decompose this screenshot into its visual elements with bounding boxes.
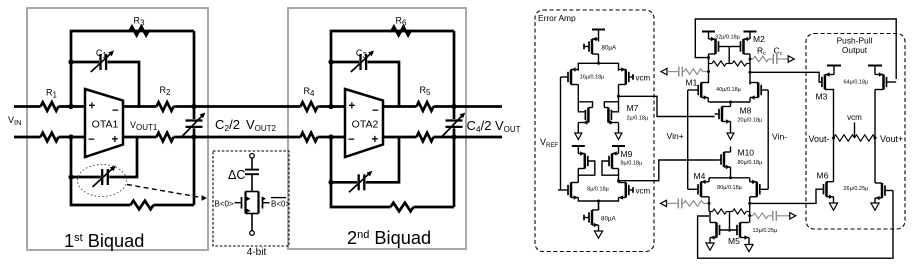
node lower right gray junction [748, 214, 751, 217]
node Vout- junction [832, 137, 835, 140]
transistor PMOS diode right M9 [602, 146, 625, 183]
resistor R1 [38, 105, 41, 108]
svg-text:Vout-: Vout- [809, 134, 830, 144]
svg-text:OTA2: OTA2 [352, 119, 379, 131]
resistor string lower right [730, 211, 733, 213]
svg-text:vcm: vcm [636, 74, 651, 83]
wire integrator cap branch [331, 61, 359, 64]
transistor M1 pair right [750, 83, 768, 103]
output resistor lower [154, 136, 157, 139]
Push-Pull Output dashed box [806, 34, 905, 230]
node input- junction [328, 134, 333, 139]
capacitor tuning (variable, lower) [93, 166, 116, 188]
transistor M10 80u/0.18u [720, 147, 731, 178]
svg-text:Output: Output [842, 45, 868, 55]
wire class-AB bottom route (to right NMOS gate) [698, 191, 893, 259]
wire error amp upper output to M8 gate [619, 96, 715, 116]
wire bottom feedback loop [331, 182, 388, 207]
svg-text:M5: M5 [728, 236, 740, 246]
wire terminal to cap [251, 158, 253, 169]
node input+ junction [328, 104, 333, 109]
transistor M4 pair right [750, 178, 769, 223]
wire output line bottom [383, 136, 414, 139]
supply bar M2 right [744, 32, 757, 40]
svg-text:+: + [349, 101, 356, 113]
node lower left gray junction [708, 202, 711, 205]
gray tap upper-left (to error amp) [661, 67, 709, 77]
transistor M2 left 32u/0.18u [709, 37, 730, 54]
svg-text:32µ/0.18µ: 32µ/0.18µ [715, 35, 741, 41]
node Vout+ junction [874, 137, 877, 140]
wire class-AB top route (left node to right PMOS gate) [695, 19, 896, 79]
wire lower rail [709, 177, 750, 179]
wire integrator cap branch [71, 61, 99, 64]
output resistor lower [414, 136, 417, 139]
svg-text:+: + [372, 134, 379, 146]
bottom feedback resistor [388, 206, 391, 209]
flow arrow M8 to M10 [727, 122, 734, 140]
wire M10 source to lower rail [729, 176, 732, 179]
wire top feedback loop [331, 31, 454, 107]
wire output line top [383, 105, 414, 108]
4-bit tuning dashed box [213, 151, 289, 246]
wire string mid to M5 gates [729, 212, 731, 231]
transistor M4 80u/0.18u [688, 178, 709, 212]
capacitor C1 (variable) [91, 51, 114, 73]
wire inter-stage line bottom [194, 136, 298, 139]
resistor R5 [414, 105, 417, 108]
svg-text:M1: M1 [686, 78, 698, 88]
wire vcm stub [854, 123, 856, 139]
svg-text:M4: M4 [694, 171, 706, 181]
wire inter-stage line top [194, 105, 298, 108]
svg-text:64µ/0.18µ: 64µ/0.18µ [844, 80, 870, 86]
transistor PMOS diode left [572, 146, 595, 183]
svg-text:8µ/0.18µ: 8µ/0.18µ [587, 187, 609, 193]
node input+ junction [68, 104, 73, 109]
svg-text:Vout+: Vout+ [880, 134, 903, 144]
transistor push-pull PMOS right [875, 72, 896, 138]
svg-text:40µ/0.18µ: 40µ/0.18µ [716, 87, 742, 93]
svg-text:vcm: vcm [636, 187, 651, 196]
wire cap to switch [251, 174, 253, 191]
svg-text:8µ/0.18µ: 8µ/0.18µ [621, 161, 643, 167]
transistor diff pair upper-right (vcm) [619, 67, 634, 96]
svg-text:13µ/0.25µ: 13µ/0.25µ [753, 228, 779, 234]
resistor string lower left [709, 211, 713, 213]
svg-text:M2: M2 [753, 34, 765, 44]
wire output line top [123, 105, 154, 108]
wire right node column upper [749, 54, 751, 84]
transistor diff pair upper-left 16u/0.18u [561, 67, 579, 97]
svg-text:Error Amp: Error Amp [538, 13, 576, 23]
node output cap bottom junction [451, 134, 456, 139]
transistor M1 [688, 83, 709, 103]
svg-text:−: − [88, 134, 95, 146]
svg-text:2µ/0.18µ: 2µ/0.18µ [627, 116, 649, 122]
wire M6 gate line [750, 189, 821, 203]
wire output stub bottom [454, 136, 502, 139]
transmission gate switch [235, 192, 270, 214]
svg-text:M3: M3 [816, 92, 828, 102]
transistor diff pair lower-left (VREF) [558, 183, 578, 200]
svg-text:80µ/0.18µ: 80µ/0.18µ [717, 185, 743, 191]
resistor string upper left [709, 63, 713, 65]
wire input line top [14, 105, 38, 108]
svg-text:−: − [112, 105, 119, 117]
svg-text:4-bit: 4-bit [247, 247, 267, 258]
current source 80uA NMOS (bottom) [584, 201, 603, 238]
transistor M5 left [706, 212, 720, 251]
supply bar M3 [827, 66, 841, 75]
svg-text:M8: M8 [740, 106, 752, 116]
svg-text:80µA: 80µA [602, 45, 617, 52]
node Vin- net [767, 90, 769, 189]
op-amp OTA2 [345, 89, 383, 157]
node Vin+ net [687, 90, 689, 189]
svg-text:80µA: 80µA [601, 216, 616, 223]
transistor diode NMOS right M7 [604, 96, 618, 125]
tuning highlight dotted ellipse [78, 165, 127, 197]
transistor diode NMOS left [578, 97, 592, 125]
wire M2 gates to resistor midpoint [728, 47, 730, 64]
svg-text:−: − [372, 105, 379, 117]
wire VREF net [560, 77, 562, 190]
wire error amp lower output to M10 gate [619, 160, 720, 181]
resistor R3 [127, 30, 130, 33]
gray tap lower-left (to error amp) [661, 198, 710, 208]
wire output line bottom [123, 136, 154, 139]
wire M3 gate line [750, 72, 822, 82]
1st Biquad frame box [27, 8, 208, 250]
wire lower diff sources rail [578, 198, 618, 202]
svg-text:M7: M7 [627, 103, 639, 113]
Error Amp dashed box [535, 10, 654, 252]
transistor diff pair lower-right (vcm) [619, 183, 634, 200]
capacitor C3 (variable) [351, 51, 374, 73]
svg-text:16µ/0.18µ: 16µ/0.18µ [580, 75, 606, 81]
resistor R4 [298, 105, 301, 108]
node output cap top junction [451, 104, 456, 109]
node output cap bottom junction [191, 134, 196, 139]
capacitor C2/2 (variable, output) [181, 113, 206, 139]
bottom feedback resistor [128, 204, 131, 207]
terminal bottom [250, 231, 255, 236]
wire lower cap feedback [330, 137, 333, 182]
transistor M8 20u/0.18u [715, 102, 731, 124]
svg-text:M6: M6 [817, 171, 829, 181]
wire left node column upper [708, 54, 710, 83]
wire switch to terminal [251, 214, 253, 231]
2nd Biquad frame box [288, 8, 466, 249]
svg-text:80µ/0.18µ: 80µ/0.18µ [738, 160, 764, 166]
capacitor tuning (variable, lower) [349, 171, 372, 193]
wire output stub top [454, 105, 502, 108]
resistor vcm right [855, 135, 876, 141]
svg-text:+: + [89, 101, 96, 113]
svg-text:Vin-: Vin- [772, 132, 787, 142]
svg-text:B<0>: B<0> [271, 200, 290, 209]
input resistor lower (1st biquad) [38, 136, 41, 139]
wire lower cap feedback [70, 137, 73, 177]
capacitor deltaC [245, 169, 259, 171]
wire M1 sources rail [709, 101, 751, 103]
gray tap lower-right [749, 211, 796, 221]
resistor R2 [154, 105, 157, 108]
terminal top [250, 154, 255, 159]
gray compensation Rc Cc (upper right) [750, 54, 794, 64]
flow arrow left (stage1 to stage2) [575, 123, 582, 140]
svg-text:OTA1: OTA1 [92, 119, 119, 131]
node output cap top junction [191, 104, 196, 109]
node input- junction [68, 134, 73, 139]
current source 80uA PMOS (top) [584, 30, 605, 64]
svg-text:M9: M9 [621, 149, 633, 159]
svg-text:Vin+: Vin+ [667, 131, 684, 141]
transistor push-pull NMOS right [871, 138, 893, 210]
transistor M3 64u/0.18u [822, 72, 834, 138]
svg-text:Push-Pull: Push-Pull [837, 36, 873, 46]
wire right column [193, 107, 196, 120]
input resistor lower (2nd biquad) [298, 136, 301, 139]
svg-text:26µ/0.25µ: 26µ/0.25µ [844, 186, 870, 192]
transistor M6 26u/0.25u [821, 138, 838, 210]
resistor R6 [389, 30, 392, 33]
svg-text:vcm: vcm [847, 113, 862, 122]
svg-text:B<0>: B<0> [215, 200, 234, 209]
transistor M5 right 13u/0.25u [737, 223, 753, 252]
flow arrow right (stage1 to stage2) [615, 123, 622, 140]
wire right column [453, 107, 456, 120]
wire bottom feedback loop [71, 177, 128, 205]
svg-text:−: − [348, 134, 355, 146]
resistor vcm left [834, 135, 855, 141]
supply bar M2 left [702, 32, 715, 40]
wire M5 shared gate [720, 229, 738, 231]
wire input line bottom [14, 136, 38, 139]
dashed pointer arrow to 4-bit box [127, 185, 202, 198]
svg-text:M10: M10 [738, 148, 755, 158]
resistor string upper right [729, 63, 732, 65]
op-amp OTA1 [85, 89, 123, 157]
wire top feedback loop [71, 31, 194, 107]
supply bar right PMOS [868, 66, 882, 75]
svg-text:ΔC: ΔC [228, 168, 245, 182]
wire diff pair rail [578, 63, 618, 71]
capacitor C4/2 (variable, output) [441, 113, 466, 139]
transistor M2 right [729, 37, 750, 54]
svg-text:20µ/0.18µ: 20µ/0.18µ [738, 118, 764, 124]
svg-text:+: + [112, 134, 119, 146]
